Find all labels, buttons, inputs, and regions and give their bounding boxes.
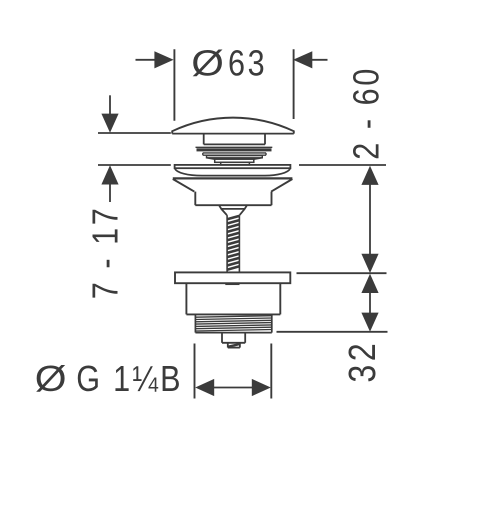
threaded collar (195, 314, 271, 332)
svg-text:Ø: Ø (191, 43, 224, 84)
rod end tick (225, 283, 239, 285)
dimension text D63 (191, 43, 267, 84)
right extension line B (bottom flange top) (297, 272, 387, 274)
svg-text:2 - 60: 2 - 60 (347, 66, 387, 160)
neck under cap (204, 134, 265, 145)
bottom dim left extension line (194, 344, 196, 399)
lower body (186, 283, 280, 314)
svg-text:7 - 17: 7 - 17 (86, 206, 126, 300)
dimension text D G 1 1/4 B (35, 359, 183, 400)
bottom dim right extension line (270, 344, 272, 399)
cone top line (173, 177, 293, 179)
ring band 2 (203, 153, 266, 155)
svg-text:32: 32 (341, 340, 383, 383)
gasket top lip (196, 146, 273, 148)
cone left side (173, 179, 195, 192)
dim 7-17 lower extension line (98, 164, 171, 166)
svg-text:G 1¼B: G 1¼B (76, 360, 183, 400)
bottom stub step 1 (222, 333, 245, 343)
cap base line (172, 133, 294, 135)
dim D63 left arrow (136, 51, 174, 68)
bottom dim arrows (195, 379, 271, 396)
bottom stub step 2 (228, 343, 240, 348)
dim D63 left extension line (173, 49, 175, 121)
ring step (207, 158, 263, 160)
ring band 4 (215, 159, 254, 162)
bell profile (175, 168, 290, 175)
gasket dark band (197, 148, 272, 151)
cap dome (172, 118, 294, 134)
bottom flange (175, 272, 290, 283)
cone right side (271, 179, 292, 192)
ring band 3 (207, 156, 263, 158)
dim 7-17 up arrow (101, 165, 118, 202)
dim 7-17 down arrow (101, 95, 118, 133)
threaded rod (227, 215, 239, 272)
dim 2-60 arrows (361, 166, 378, 273)
spindle hub (219, 205, 247, 215)
svg-text:Ø: Ø (35, 359, 67, 400)
dim D63 right arrow (293, 51, 327, 68)
dim 32 arrows (361, 274, 378, 332)
right extension line C (thread bottom) (277, 331, 388, 333)
flange plate (175, 165, 291, 168)
body block (195, 192, 271, 206)
ring base block (221, 162, 250, 165)
svg-text:63: 63 (228, 44, 267, 84)
dim 7-17 upper extension line (98, 132, 171, 134)
right extension line A (flange top) (299, 164, 386, 166)
dim D63 right extension line (293, 49, 295, 119)
